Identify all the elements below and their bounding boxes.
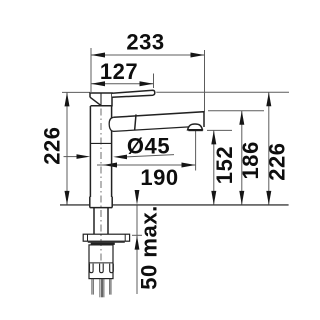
svg-text:152: 152 <box>212 146 237 184</box>
svg-text:226: 226 <box>264 142 289 180</box>
svg-text:Ø45: Ø45 <box>127 133 170 158</box>
svg-text:233: 233 <box>126 30 164 55</box>
svg-text:127: 127 <box>100 59 138 84</box>
svg-text:226: 226 <box>39 126 64 164</box>
svg-text:50 max.: 50 max. <box>136 205 161 290</box>
svg-text:186: 186 <box>238 141 263 179</box>
svg-text:190: 190 <box>140 165 178 190</box>
